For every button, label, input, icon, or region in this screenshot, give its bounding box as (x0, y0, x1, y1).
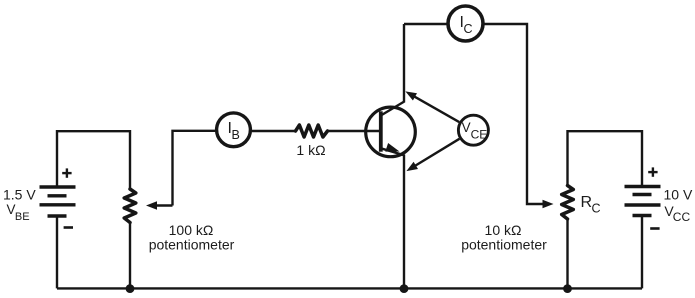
svg-text:potentiometer: potentiometer (461, 237, 547, 253)
svg-text:CE: CE (471, 127, 488, 141)
svg-text:BE: BE (15, 211, 30, 223)
transistor Q1 collector lead (381, 102, 405, 116)
wire: collector up to top rail (403, 24, 405, 103)
wire: 100k potentiometer bottom to rail (129, 223, 131, 289)
svg-text:10 V: 10 V (664, 187, 693, 203)
svg-text:C: C (464, 22, 473, 36)
battery VCC minus sign (650, 227, 659, 230)
potentiometer 100k zigzag (124, 189, 136, 223)
battery V_BE minus sign (64, 226, 73, 229)
svg-text:C: C (592, 202, 601, 216)
wire: V_BE top up and over to 100k potentiometer (57, 131, 130, 189)
svg-text:R: R (581, 194, 593, 211)
svg-text:1 kΩ: 1 kΩ (296, 142, 325, 158)
wire: top rail left segment (404, 23, 447, 25)
junction dot RC/rail (563, 284, 572, 293)
transistor Q1 circle (366, 107, 416, 157)
ammeter IB (217, 113, 251, 147)
VCE probe line to emitter (413, 139, 460, 168)
svg-text:potentiometer: potentiometer (149, 237, 235, 253)
transistor Q1 base bar (379, 111, 383, 151)
potentiometer RC zigzag (562, 186, 574, 220)
wire: VCC negative down to rail (641, 216, 643, 288)
wire: IB to resistor R1 (252, 130, 296, 132)
wiper arrow of 10k pot (543, 200, 554, 208)
ammeter IC (448, 6, 483, 41)
wire: RC top over to VCC battery (568, 131, 643, 185)
VCE probe arrow to collector (405, 91, 417, 100)
wire: top rail right segment down to RC wiper (484, 24, 544, 204)
wire: R1 to transistor base bar (328, 130, 381, 132)
battery V_BE plates (40, 187, 76, 216)
junction dot pot/rail left (126, 284, 135, 293)
VCE probe line to collector (412, 95, 459, 122)
wire: V_BE negative terminal down to bottom rail (56, 217, 58, 289)
svg-text:10 kΩ: 10 kΩ (485, 222, 522, 238)
wire: emitter down to rail (403, 155, 405, 289)
resistor R1 1k zigzag (296, 125, 328, 137)
wiper arrow of 100k pot (156, 204, 173, 206)
svg-text:B: B (232, 128, 240, 142)
junction dot emitter/rail (400, 284, 409, 293)
svg-text:CC: CC (673, 210, 691, 224)
svg-text:1.5 V: 1.5 V (3, 186, 36, 202)
VCE probe arrow to emitter (406, 162, 418, 171)
transistor Q1 emitter lead (381, 148, 404, 155)
svg-text:100 kΩ: 100 kΩ (169, 222, 214, 238)
battery VCC plates (625, 187, 661, 216)
wire: bottom rail (57, 287, 642, 289)
voltmeter VCE (458, 115, 488, 145)
svg-text:V: V (462, 120, 471, 135)
wire: wiper up to ammeter IB (173, 131, 216, 206)
battery V_BE plus sign (62, 168, 71, 177)
battery VCC plus sign (648, 167, 657, 176)
transistor Q1 emitter arrow (385, 143, 399, 152)
wire: RC bottom to rail (566, 219, 568, 288)
